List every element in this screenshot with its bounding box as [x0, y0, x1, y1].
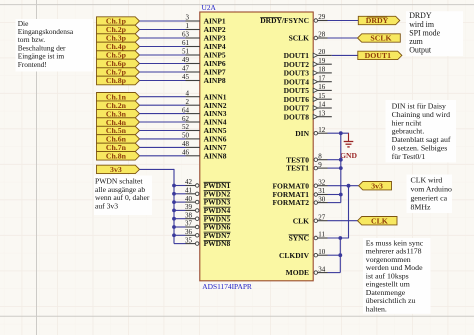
pin DOUT1 (20) — [284, 48, 358, 60]
pin PWDN2 (41) with wire — [172, 187, 230, 199]
svg-text:FORMAT2: FORMAT2 — [272, 198, 309, 207]
pin DOUT4 (17) — [284, 74, 332, 86]
designator U2A — [202, 3, 217, 12]
pin DOUT8 (13) — [284, 109, 332, 121]
svg-text:Output: Output — [409, 46, 432, 55]
note frontend — [16, 19, 94, 72]
svg-text:DOUT7: DOUT7 — [284, 104, 310, 113]
svg-text:für Test0/1: für Test0/1 — [392, 152, 426, 161]
svg-text:DIN: DIN — [295, 129, 309, 138]
svg-text:61: 61 — [182, 39, 190, 47]
svg-text:DOUT8: DOUT8 — [284, 112, 310, 121]
svg-text:2: 2 — [186, 98, 190, 106]
pin AINN2 (2) with port Ch.2n and wire — [97, 98, 227, 110]
svg-text:38: 38 — [185, 211, 193, 219]
svg-text:halten.: halten. — [366, 304, 387, 313]
note clk arduino — [407, 175, 453, 214]
svg-text:CLK: CLK — [371, 216, 388, 225]
port DOUT1 — [358, 51, 402, 60]
svg-text:62: 62 — [182, 115, 190, 123]
pin AINP5 (51) with port Ch.5p and wire — [97, 48, 226, 60]
pin TEST0 (8) with wire — [286, 152, 343, 164]
svg-text:1: 1 — [186, 22, 190, 30]
pin SCLK (28) with wire — [289, 31, 358, 43]
wire 3v3 to PWDN vertical — [140, 169, 175, 244]
pin AINN6 (50) with port Ch.6n and wire — [97, 132, 227, 144]
svg-text:vom Arduino: vom Arduino — [411, 184, 452, 193]
pin PWDN5 (38) with wire — [172, 211, 230, 223]
pin DRDY/FSYNC (29) with wire — [260, 13, 358, 25]
svg-text:47: 47 — [182, 65, 190, 73]
port DRDY — [358, 16, 400, 25]
sheet border top — [0, 4, 474, 6]
port CLK — [358, 216, 398, 225]
pin AINP7 (47) with port Ch.7p and wire — [97, 65, 226, 77]
svg-text:42: 42 — [185, 178, 193, 186]
svg-text:DOUT1: DOUT1 — [365, 51, 392, 60]
svg-text:Ch.8p: Ch.8p — [106, 76, 127, 85]
pin AINP2 (1) with port Ch.2p and wire — [97, 22, 226, 34]
svg-text:35: 35 — [185, 236, 193, 244]
svg-text:49: 49 — [182, 56, 190, 64]
pin FORMAT2 (30) with wire — [272, 195, 340, 207]
pin PWDN3 (40) with wire — [172, 195, 230, 207]
pin CLK (27) with wire — [293, 213, 358, 225]
svg-text:MODE: MODE — [286, 268, 309, 277]
pin AINN4 (62) with port Ch.4n and wire — [97, 115, 227, 127]
sheet border left — [36, 0, 38, 335]
svg-text:3v3: 3v3 — [371, 181, 383, 190]
pin AINP4 (61) with port Ch.4p and wire — [97, 39, 226, 51]
value ADS1174IPAPR — [202, 282, 252, 291]
pin AINN7 (48) with port Ch.7n and wire — [97, 140, 227, 152]
port SCLK — [358, 34, 401, 43]
svg-text:48: 48 — [182, 140, 190, 148]
ground GND — [340, 133, 357, 160]
pin AINN1 (4) with port Ch.1n and wire — [97, 89, 227, 101]
pin PWDN6 (37) with wire — [172, 220, 230, 232]
note sync mode — [363, 238, 431, 314]
svg-text:AINN8: AINN8 — [204, 151, 227, 160]
svg-text:auf 3v3: auf 3v3 — [95, 202, 118, 211]
svg-text:DOUT1: DOUT1 — [284, 51, 310, 60]
pin DOUT6 (15) — [284, 92, 332, 104]
svg-text:64: 64 — [182, 106, 190, 114]
port 3v3 (left) — [97, 165, 140, 174]
svg-text:3: 3 — [186, 14, 190, 22]
svg-text:Ch.8n: Ch.8n — [106, 152, 127, 161]
svg-text:CLK wird: CLK wird — [411, 175, 443, 184]
pin AINN8 (46) with port Ch.8n and wire — [97, 149, 227, 161]
svg-text:DOUT6: DOUT6 — [284, 95, 310, 104]
svg-text:36: 36 — [185, 228, 193, 236]
svg-text:41: 41 — [185, 187, 193, 195]
svg-text:DRDY: DRDY — [366, 16, 389, 25]
svg-text:ADS1174IPAPR: ADS1174IPAPR — [202, 282, 252, 291]
svg-text:TEST1: TEST1 — [286, 164, 309, 173]
pin PWDN8 (35) with wire — [174, 236, 231, 248]
pin TEST1 (9) with wire — [286, 161, 343, 173]
note pwdn — [94, 176, 152, 216]
wire GND net vertical — [340, 133, 342, 202]
pin AINP8 (45) with port Ch.8p and wire — [97, 73, 226, 85]
svg-text:51: 51 — [182, 48, 190, 56]
svg-text:GND: GND — [340, 151, 357, 160]
pin DOUT7 (14) — [284, 101, 332, 113]
svg-text:generiert ca: generiert ca — [411, 194, 448, 203]
pin AINP6 (49) with port Ch.6p and wire — [97, 56, 226, 68]
svg-text:AINP8: AINP8 — [204, 76, 226, 85]
pin CLKDIV (10) with wire — [279, 248, 342, 260]
svg-text:DOUT4: DOUT4 — [284, 77, 310, 86]
svg-text:46: 46 — [182, 149, 190, 157]
svg-text:CLK: CLK — [293, 216, 309, 225]
svg-text:63: 63 — [182, 31, 190, 39]
wire 3v3 net vertical 2 — [339, 238, 341, 273]
svg-text:DOUT3: DOUT3 — [284, 69, 310, 78]
pin MODE (34) with wire — [286, 265, 341, 277]
pin PWDN7 (36) with wire — [172, 228, 230, 240]
svg-text:SCLK: SCLK — [370, 34, 391, 43]
pin PWDN1 (42) with wire — [172, 178, 230, 190]
pin AINP3 (63) with port Ch.3p and wire — [97, 31, 226, 43]
svg-text:50: 50 — [182, 132, 190, 140]
pin FORMAT1 (31) with wire — [272, 187, 342, 199]
svg-text:40: 40 — [185, 195, 193, 203]
svg-text:U2A: U2A — [202, 3, 217, 12]
pin FORMAT0 (32) with wire — [272, 178, 358, 190]
sheet border bottom — [0, 315, 474, 317]
svg-text:52: 52 — [182, 123, 190, 131]
pin AINN5 (52) with port Ch.5n and wire — [97, 123, 227, 135]
svg-text:3v3: 3v3 — [110, 165, 122, 174]
svg-text:FORMAT0: FORMAT0 — [272, 181, 309, 190]
pin AINP1 (3) with port Ch.1p and wire — [97, 14, 226, 26]
svg-text:DOUT2: DOUT2 — [284, 60, 310, 69]
pin DOUT2 (19) — [284, 57, 332, 69]
IC U2A ADS1174IPAPR body — [200, 12, 313, 281]
pin DOUT3 (18) — [284, 66, 332, 78]
svg-text:DOUT5: DOUT5 — [284, 86, 310, 95]
svg-text:Frontend!: Frontend! — [18, 60, 47, 69]
pin DOUT5 (16) — [284, 83, 332, 95]
note drdy spi — [406, 11, 463, 56]
svg-text:37: 37 — [185, 220, 193, 228]
note din daisy — [386, 100, 457, 163]
pin PWDN4 (39) with wire — [172, 203, 230, 215]
svg-text:CLKDIV: CLKDIV — [279, 251, 310, 260]
svg-text:39: 39 — [185, 203, 193, 211]
pin SYNC (11) with wire — [289, 231, 349, 243]
svg-text:45: 45 — [182, 73, 190, 81]
svg-text:SCLK: SCLK — [289, 34, 310, 43]
wire 3v3 net vertical — [348, 186, 350, 238]
port 3v3 (right) — [359, 181, 392, 190]
pin AINN3 (64) with port Ch.3n and wire — [97, 106, 227, 118]
svg-text:4: 4 — [186, 89, 190, 97]
svg-text:8MHz: 8MHz — [411, 203, 431, 212]
pin DIN (12) with wire to GND — [295, 126, 349, 138]
